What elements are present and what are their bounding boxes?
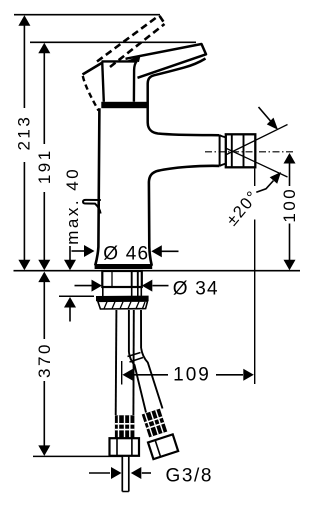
supply hose left — [115, 310, 118, 415]
aerator facet lines — [232, 135, 244, 168]
arrowhead 370 bottom — [38, 445, 50, 456]
svg-text:G3/8: G3/8 — [166, 466, 214, 487]
arrowhead upper angle — [267, 118, 278, 130]
deck line — [14, 270, 301, 272]
base collar (hatched trapezoid) — [98, 301, 148, 309]
dimension Ø 46 — [72, 250, 85, 252]
aerator neck — [220, 135, 226, 166]
arrowhead 213 top — [18, 15, 30, 26]
spout tip end cap — [219, 135, 221, 166]
lever sideways position: solid edge — [83, 63, 103, 75]
arrowhead lower angle — [270, 172, 281, 184]
shank lower section — [103, 287, 142, 296]
lower angle leader + arrow — [256, 181, 273, 193]
arrowhead G3/8 right — [131, 467, 142, 479]
arrowhead G3/8 left — [111, 467, 122, 479]
svg-text:213: 213 — [14, 115, 33, 151]
arrowhead 100 bottom — [284, 260, 296, 271]
upper angle leader + arrow — [259, 107, 271, 121]
max 40 lower arrow stem — [69, 307, 71, 322]
arrowhead max40 upper (at deck) — [64, 260, 76, 271]
dimension Ø 34 — [75, 285, 92, 287]
arrowhead 109 right — [243, 369, 254, 381]
svg-text:Ø 34: Ø 34 — [173, 278, 219, 299]
right hose braided connector — [142, 409, 167, 438]
dimension line 109 — [131, 374, 243, 376]
right hose end cap — [148, 434, 178, 459]
supply hose right — [129, 310, 141, 352]
max 40 tick line below deck — [59, 295, 94, 297]
G3/8 threaded tube — [122, 456, 129, 492]
svg-text:Ø 46: Ø 46 — [103, 244, 149, 265]
hose bend ticks — [128, 353, 144, 363]
mounting nut — [96, 296, 149, 302]
arrowhead 100 top — [284, 153, 296, 164]
dimension line 213 — [23, 25, 25, 260]
arrowhead 109 left — [122, 369, 132, 381]
arrowhead Ø46 left — [84, 245, 95, 257]
arrowhead 370 top — [38, 272, 50, 283]
dimension line 100 — [289, 163, 291, 262]
pull rod knob — [83, 200, 101, 214]
spray angle centerline (dash-dot) — [205, 151, 293, 153]
aerator block — [226, 134, 256, 167]
arrowhead 213 bottom — [18, 260, 30, 271]
svg-text:100: 100 — [280, 187, 299, 223]
arrowhead Ø46 right — [151, 245, 162, 257]
body bottom on deck — [95, 264, 153, 269]
arrowhead 191 top — [38, 43, 50, 54]
left hose nut — [110, 438, 140, 456]
handle/lever junction wedge — [127, 56, 141, 62]
lever sideways position: dashed edge — [83, 76, 99, 111]
bottom reference line (370) — [33, 455, 123, 457]
dimension max. 40 — [69, 246, 71, 260]
below-deck shank — [102, 271, 142, 287]
svg-text:191: 191 — [35, 148, 54, 184]
extension line right (109 / spout outlet) — [254, 169, 256, 385]
joint ring (thick band) — [101, 102, 147, 108]
left hose braided connector — [115, 415, 134, 438]
lever raised position (dashed) — [97, 16, 165, 68]
svg-text:370: 370 — [35, 342, 54, 378]
svg-text:109: 109 — [173, 365, 211, 386]
spout outline — [148, 59, 220, 136]
extension line second (191 ref) — [30, 41, 196, 43]
faucet: handle lever (solid) — [126, 44, 207, 78]
svg-text:max. 40: max. 40 — [63, 167, 82, 245]
dimension line 370 — [43, 281, 45, 446]
spray angle lower diagonal — [226, 148, 288, 177]
dimension line 191 — [43, 52, 45, 260]
max 40 lower arrow — [64, 297, 76, 308]
handle block — [102, 60, 137, 62]
dimension G3/8 — [89, 472, 110, 474]
extension line top (213 ref) — [14, 14, 160, 16]
arrowhead Ø34 left — [92, 280, 103, 292]
extension line left (109) — [121, 361, 123, 385]
faucet body outline — [95, 108, 99, 265]
spray angle upper diagonal — [226, 125, 288, 156]
arrowhead Ø34 right — [142, 280, 153, 292]
arrowhead 191 bottom — [38, 260, 50, 271]
